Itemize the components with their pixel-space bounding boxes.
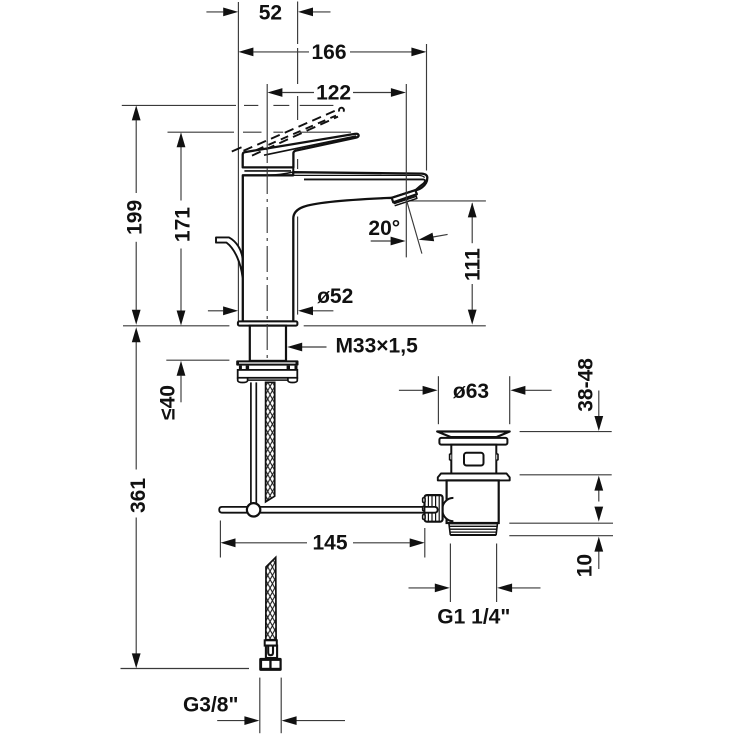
svg-text:38-48: 38-48 [575,358,598,412]
svg-text:≤40: ≤40 [157,385,180,420]
svg-text:G1 1/4": G1 1/4" [437,605,510,628]
svg-text:171: 171 [171,207,194,242]
svg-text:10: 10 [574,554,597,577]
svg-text:361: 361 [127,478,150,513]
svg-text:122: 122 [316,82,351,105]
svg-text:20°: 20° [368,217,400,240]
svg-text:111: 111 [462,248,485,281]
svg-text:199: 199 [123,200,146,235]
svg-text:G3/8": G3/8" [183,694,238,717]
svg-text:166: 166 [311,41,346,64]
svg-text:ø63: ø63 [453,380,489,403]
svg-text:ø52: ø52 [317,285,353,308]
svg-text:145: 145 [312,531,347,554]
svg-text:M33×1,5: M33×1,5 [335,334,418,357]
svg-text:52: 52 [259,1,282,24]
